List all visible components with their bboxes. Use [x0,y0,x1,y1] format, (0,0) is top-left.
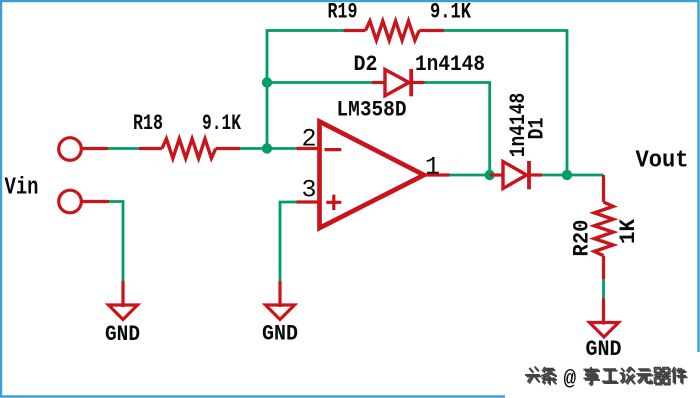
svg-text:9.1K: 9.1K [430,0,472,25]
svg-text:Vin: Vin [5,175,39,202]
svg-text:R18: R18 [133,111,163,136]
svg-text:Vout: Vout [636,148,689,175]
svg-text:R20: R20 [570,220,595,257]
svg-text:@: @ [564,369,577,392]
svg-text:1: 1 [425,153,440,182]
svg-text:D1: D1 [525,118,550,140]
svg-text:GND: GND [105,322,140,347]
svg-text:2: 2 [302,125,317,154]
svg-text:D2: D2 [354,52,378,77]
svg-text:LM358D: LM358D [337,98,407,123]
svg-text:1n4148: 1n4148 [415,52,485,77]
svg-text:3: 3 [302,176,317,205]
svg-text:GND: GND [586,337,622,362]
svg-text:R19: R19 [328,0,358,25]
svg-text:1K: 1K [616,218,641,244]
svg-text:9.1K: 9.1K [202,111,242,136]
svg-text:GND: GND [262,322,298,347]
